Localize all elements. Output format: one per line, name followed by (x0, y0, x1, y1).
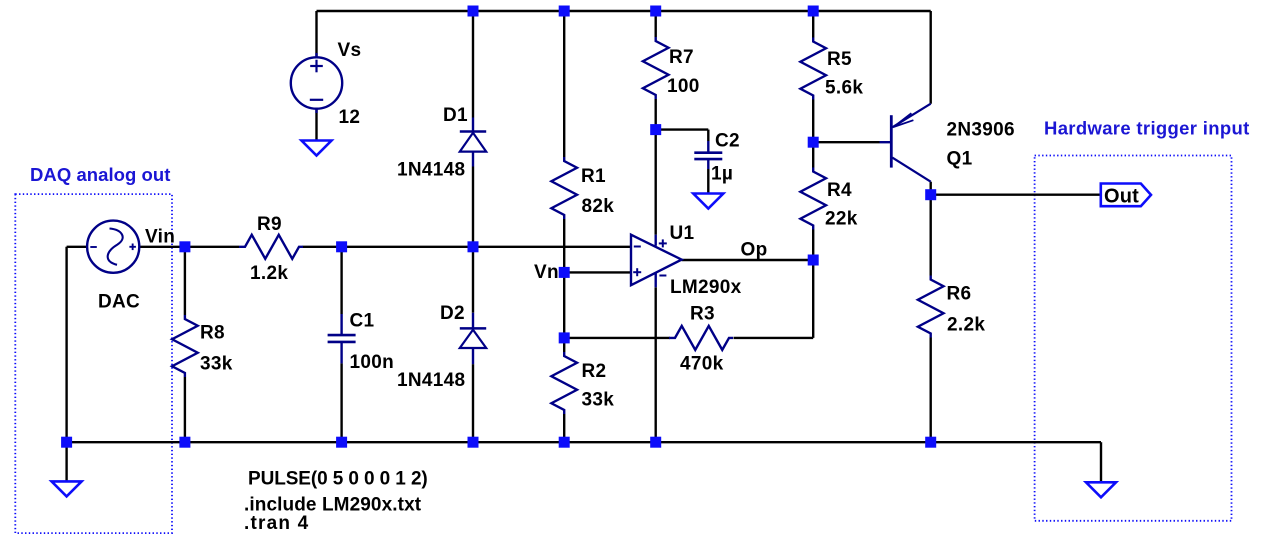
ground bottom right (1086, 482, 1116, 497)
svg-text:R1: R1 (581, 166, 606, 187)
wire R3 tap row (564, 337, 670, 339)
Hardware trigger input dashed boundary box (1035, 156, 1232, 521)
wire C2 node to op-amp V+ (655, 130, 657, 235)
svg-text:82k: 82k (582, 196, 615, 217)
wire C2 node to C2 (656, 128, 709, 130)
resistor R9 (239, 235, 303, 259)
svg-text:470k: 470k (680, 354, 724, 375)
node Vin junction (179, 241, 190, 252)
node C2 junction (650, 124, 661, 135)
svg-text:PULSE(0 5 0 0 0 1 2): PULSE(0 5 0 0 0 1 2) (248, 469, 428, 490)
svg-text:D2: D2 (440, 303, 465, 324)
op-amp U1 LM290x (631, 235, 682, 286)
wire R2 to bottom rail (563, 414, 565, 442)
svg-text:LM290x: LM290x (670, 277, 742, 298)
wire Out node to Out port (931, 193, 1101, 195)
wire D1 to signal row (472, 167, 474, 247)
wire DAC left column (65, 247, 67, 442)
svg-text:D1: D1 (443, 105, 468, 126)
node C1 top junction (336, 241, 347, 252)
svg-text:Vin: Vin (145, 227, 175, 248)
wire C2 drop (707, 130, 709, 141)
wire base node to Q1 (813, 141, 879, 143)
svg-text:R3: R3 (690, 304, 715, 325)
wire top rail to Q1 emitter (930, 11, 932, 104)
node bottom rail left ground junction (61, 437, 72, 448)
wire R5 to base node (812, 100, 814, 143)
wire op-amp output to Op node (682, 259, 814, 261)
svg-text:Op: Op (741, 240, 768, 261)
diode D1 (472, 118, 474, 132)
resistor R4 (800, 168, 826, 230)
svg-text:R8: R8 (200, 323, 225, 344)
svg-text:U1: U1 (670, 223, 695, 244)
svg-text:5.6k: 5.6k (825, 78, 863, 99)
svg-text:1.2k: 1.2k (250, 263, 288, 284)
node Q1 collector Out junction (925, 189, 936, 200)
diode D2 (472, 313, 474, 329)
svg-text:2.2k: 2.2k (947, 315, 985, 336)
resistor R5 (800, 38, 826, 100)
svg-text:C2: C2 (715, 131, 740, 152)
wire Op node riser (812, 260, 814, 338)
node bottom rail C1 junction (336, 437, 347, 448)
wire D2 to bottom rail (472, 364, 474, 442)
wire D1 column from rail (472, 11, 474, 118)
node R3 tap junction (559, 332, 570, 343)
resistor R8 (172, 315, 198, 377)
node bottom rail R2 junction (559, 437, 570, 448)
wire bottom ground rail (67, 441, 1101, 443)
svg-text:33k: 33k (200, 354, 233, 375)
svg-text:R2: R2 (582, 361, 607, 382)
svg-text:100n: 100n (350, 352, 395, 373)
wire signal row R9 to D junction (303, 246, 474, 248)
node bottom rail R8 junction (179, 437, 190, 448)
svg-text:R7: R7 (669, 47, 694, 68)
svg-text:R5: R5 (827, 49, 852, 70)
wire top supply rail (317, 10, 931, 12)
svg-text:1N4148: 1N4148 (397, 370, 465, 391)
node junction top rail at R7 (650, 6, 661, 17)
node Vn junction (559, 267, 570, 278)
node D column signal junction (468, 241, 479, 252)
transistor Q1 2N3906 PNP (890, 115, 893, 167)
svg-text:Out: Out (1104, 186, 1139, 208)
voltage source Vs (291, 57, 342, 108)
node bottom rail D2 junction (468, 437, 479, 448)
svg-text:R4: R4 (827, 180, 852, 201)
wire Q1 collector to Out node (930, 182, 932, 195)
ground below C2 (693, 194, 723, 209)
wire signal row DAC to R9 (139, 246, 239, 248)
wire R1 column from rail (563, 11, 565, 157)
wire op-amp V- to bottom rail (655, 287, 657, 442)
svg-text:1µ: 1µ (711, 164, 733, 185)
wire R7 column from rail (655, 11, 657, 37)
svg-text:DAQ analog out: DAQ analog out (30, 164, 170, 185)
wire C2 to ground (707, 169, 709, 194)
svg-text:12: 12 (339, 107, 361, 128)
svg-text:33k: 33k (582, 390, 615, 411)
wire R4 to Op node (812, 230, 814, 261)
wire Vn to op-amp plus input (564, 271, 631, 273)
wire signal row D junction to op-amp minus input (473, 246, 631, 248)
wire R3 to Op node corner (734, 337, 814, 339)
node bottom rail R6 junction (925, 437, 936, 448)
DAQ analog out dashed boundary box (15, 194, 172, 533)
svg-text:Vn: Vn (534, 262, 559, 283)
resistor R6 (918, 276, 944, 338)
wire R3 tap to R2 (563, 338, 565, 352)
wire R7 to C2 node (655, 99, 657, 130)
resistor R3 (669, 326, 733, 350)
wire base node to R4 (812, 142, 814, 167)
svg-text:Q1: Q1 (947, 149, 973, 170)
voltage source DAC sine source (87, 221, 139, 273)
wire R5 column from rail (812, 11, 814, 38)
resistor R7 (643, 37, 669, 99)
svg-text:2N3906: 2N3906 (947, 120, 1015, 141)
wire DAC left lead (67, 246, 88, 248)
svg-text:.tran 4: .tran 4 (244, 513, 309, 534)
resistor R2 (551, 352, 577, 414)
svg-text:Vs: Vs (338, 40, 362, 61)
resistor R1 (551, 157, 577, 219)
svg-text:100: 100 (667, 76, 700, 97)
wire R1 to Vn node (563, 219, 565, 272)
wire C1 to bottom rail (340, 363, 342, 442)
wire R6 to bottom rail (930, 338, 932, 443)
node bottom rail op-amp junction (650, 437, 661, 448)
svg-text:DAC: DAC (98, 292, 140, 313)
svg-text:22k: 22k (825, 209, 858, 230)
node junction top rail at D1 (468, 6, 479, 17)
wire Vs to ground (315, 109, 317, 141)
wire R8 to bottom rail (184, 377, 186, 442)
node junction top rail at R1 (559, 6, 570, 17)
wire Vn node to R3 tap (563, 272, 565, 338)
node Op junction (808, 255, 819, 266)
node Q1 base junction (808, 137, 819, 148)
wire C1 top (340, 247, 342, 314)
ground bottom left (52, 481, 82, 496)
wire bottom rail right drop (1100, 442, 1102, 482)
wire Vs column top (315, 11, 317, 57)
svg-text:1N4148: 1N4148 (397, 160, 465, 181)
capacitor C2 (707, 141, 709, 153)
svg-text:R9: R9 (257, 214, 282, 235)
wire left ground drop (65, 442, 67, 481)
svg-text:Hardware trigger input: Hardware trigger input (1044, 117, 1250, 138)
svg-text:C1: C1 (350, 311, 375, 332)
wire D2 top (472, 247, 474, 313)
output port Out (1101, 184, 1151, 207)
wire Vin node to R8 (184, 247, 186, 315)
svg-text:R6: R6 (947, 284, 972, 305)
wire Out node to R6 (930, 195, 932, 276)
capacitor C1 (340, 314, 342, 335)
node junction top rail at R5 (808, 6, 819, 17)
ground below Vs (302, 141, 332, 156)
